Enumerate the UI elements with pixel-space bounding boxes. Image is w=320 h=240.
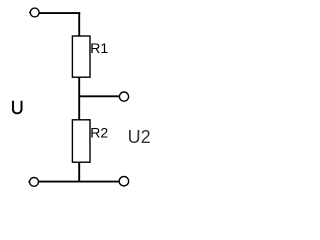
wire bottom horizontal [39, 181, 120, 183]
svg-text:U2: U2 [128, 127, 151, 147]
resistor R2 [72, 120, 90, 162]
wire middle horizontal to T2 [79, 95, 119, 97]
terminal T4 (bottom-right) [119, 177, 128, 186]
wire R2 to bottom [78, 162, 80, 182]
wire top vertical to R1 [78, 12, 80, 36]
svg-text:R1: R1 [90, 40, 108, 56]
resistor R1 [72, 36, 90, 77]
wire R1 to R2 [78, 77, 80, 120]
svg-text:U: U [11, 98, 24, 118]
wire top horizontal [39, 12, 80, 14]
terminal T2 (middle right tap) [119, 92, 128, 101]
terminal T3 (bottom-left) [28, 178, 38, 187]
terminal T1 (top-left input) [29, 8, 39, 17]
svg-text:R2: R2 [90, 125, 108, 141]
